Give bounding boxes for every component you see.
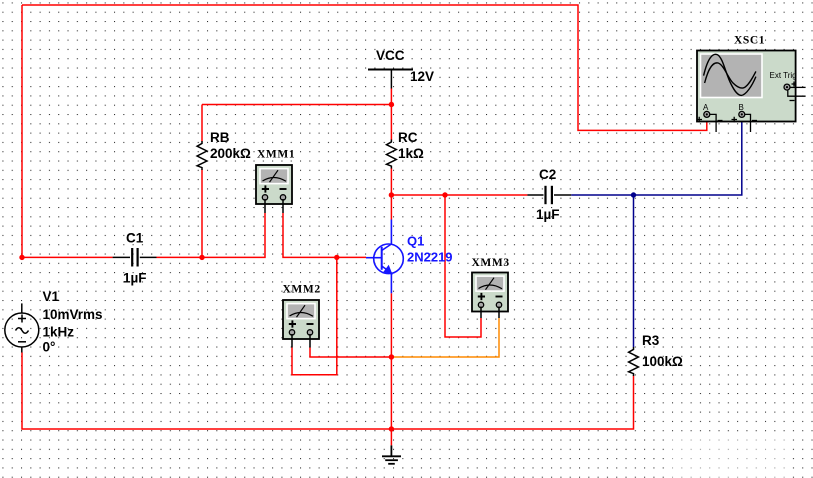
svg-text:C2: C2 bbox=[539, 167, 556, 182]
svg-text:0°: 0° bbox=[43, 340, 56, 355]
capacitor C2 bbox=[527, 186, 571, 204]
svg-text:1kHz: 1kHz bbox=[43, 325, 75, 340]
svg-text:V1: V1 bbox=[43, 289, 60, 304]
svg-text:Ext Trig: Ext Trig bbox=[770, 71, 797, 80]
svg-text:RB: RB bbox=[210, 130, 230, 145]
wire: collector to transistor top pin bbox=[390, 195, 392, 220]
wire: XMM1 minus to transistor base bbox=[283, 213, 366, 257]
wire: VCC stub red bbox=[390, 89, 392, 141]
junction output node navy bbox=[631, 192, 636, 197]
VCC power symbol bbox=[368, 70, 413, 89]
svg-text:100kΩ: 100kΩ bbox=[642, 354, 683, 369]
XMM1 pin stubs bbox=[265, 199, 283, 213]
multimeter XMM3 bbox=[472, 273, 508, 312]
junction collector node bbox=[389, 192, 394, 197]
XSC1 terminal A bbox=[697, 111, 723, 132]
svg-text:200kΩ: 200kΩ bbox=[210, 146, 251, 161]
resistor RB bbox=[197, 141, 207, 170]
junction XMM3 plus tap bbox=[442, 192, 447, 197]
capacitor C1 bbox=[113, 248, 157, 267]
oscilloscope XSC1 bbox=[697, 51, 796, 122]
wire: XMM3 plus to collector node bbox=[445, 195, 481, 337]
svg-text:RC: RC bbox=[398, 130, 418, 145]
wire: XMM3 minus orange to emitter node bbox=[391, 318, 499, 357]
wire: top bus from V1 node to oscilloscope channel A bbox=[22, 5, 707, 130]
XMM2 pin stubs bbox=[292, 334, 310, 348]
wire: left bus V1 top to input node bbox=[21, 5, 23, 257]
junction XMM2 plus on base wire bbox=[334, 255, 339, 260]
XMM3 pin stubs bbox=[481, 307, 499, 319]
wire: input node to C1 left bbox=[22, 256, 113, 258]
wire: collector node to C2 bbox=[391, 194, 527, 196]
ground bbox=[382, 445, 401, 463]
wire: navy output C2 to scope B and R3 bbox=[571, 117, 742, 195]
wire: XMM2 plus loop to base junction bbox=[292, 257, 337, 374]
wire: RB top lead bbox=[201, 105, 203, 142]
XSC1 ext trig terminal bbox=[784, 82, 806, 101]
svg-text:1µF: 1µF bbox=[123, 271, 147, 286]
wire: V1 bottom to ground bus, bottom bus to R3 bbox=[22, 353, 634, 430]
faded watermark area bottom right bbox=[668, 438, 790, 478]
svg-text:R3: R3 bbox=[642, 333, 660, 348]
junction ground bus bbox=[389, 426, 394, 431]
resistor R3 bbox=[629, 347, 639, 376]
svg-text:XSC1: XSC1 bbox=[734, 35, 765, 47]
svg-text:2N2219: 2N2219 bbox=[407, 250, 453, 265]
svg-text:10mVrms: 10mVrms bbox=[43, 307, 103, 322]
svg-text:XMM1: XMM1 bbox=[257, 149, 295, 161]
svg-text:12V: 12V bbox=[410, 69, 434, 84]
svg-text:XMM2: XMM2 bbox=[283, 284, 321, 296]
wire: navy node down to R3 top bbox=[633, 195, 635, 347]
wire: RC bottom to collector node bbox=[390, 168, 392, 195]
svg-text:A: A bbox=[703, 103, 709, 112]
junction VCC-RB-RC node bbox=[389, 102, 394, 107]
multimeter XMM1 bbox=[256, 165, 292, 204]
wire: XMM2 minus to emitter node bbox=[310, 348, 391, 358]
wire: RB bottom to base wire bbox=[201, 170, 203, 258]
svg-text:XMM3: XMM3 bbox=[472, 257, 510, 269]
wire: C1 right to XMM1 plus bbox=[157, 213, 266, 257]
junction RB bottom on base wire bbox=[199, 255, 204, 260]
wire: RB top horizontal to VCC junction bbox=[202, 104, 391, 106]
svg-text:C1: C1 bbox=[126, 231, 144, 246]
XSC1 terminal B bbox=[732, 111, 758, 132]
resistor RC bbox=[387, 140, 397, 169]
junction emitter node bbox=[389, 354, 394, 359]
multimeter XMM2 bbox=[283, 300, 319, 339]
wire: emitter down to ground bus bbox=[390, 293, 392, 445]
svg-text:1µF: 1µF bbox=[536, 207, 560, 222]
svg-text:Q1: Q1 bbox=[407, 234, 424, 249]
svg-text:VCC: VCC bbox=[376, 48, 405, 63]
AC source V1 bbox=[5, 303, 39, 352]
svg-text:1kΩ: 1kΩ bbox=[398, 146, 424, 161]
junction input node at left bus bbox=[19, 255, 24, 260]
transistor Q1 bbox=[366, 220, 403, 294]
svg-text:B: B bbox=[739, 103, 744, 112]
